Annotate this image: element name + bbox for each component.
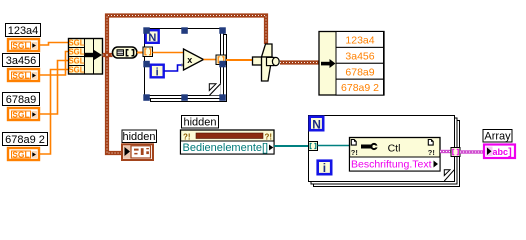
teal wire tunnel to Ctl property node xyxy=(318,145,350,147)
Array label xyxy=(483,130,512,143)
wire multiply to output tunnel xyxy=(204,59,218,61)
wire terminal2 to build array input2 xyxy=(39,52,68,76)
svg-text:hidden: hidden xyxy=(122,131,155,143)
svg-text:SGL: SGL xyxy=(12,41,29,51)
funnel converter node xyxy=(253,44,280,81)
svg-text:678a9 2: 678a9 2 xyxy=(5,134,45,146)
svg-text:Bedienelemente[]: Bedienelemente[] xyxy=(183,142,269,154)
svg-text:i: i xyxy=(323,161,326,175)
array wire funnel to table xyxy=(280,60,322,64)
svg-text:?!: ?! xyxy=(428,148,435,157)
array size capsule node xyxy=(113,47,138,58)
numeric control terminal SGL 4 xyxy=(8,148,39,160)
svg-text:SGL: SGL xyxy=(12,71,29,81)
multiply function xyxy=(184,49,204,70)
svg-text:?!: ?! xyxy=(183,133,191,142)
svg-text:Beschriftung.Text: Beschriftung.Text xyxy=(351,159,432,171)
svg-text:SGL: SGL xyxy=(12,150,29,160)
wire i to multiply (blue) xyxy=(164,65,184,71)
build array node xyxy=(68,39,102,75)
hidden graph terminal node xyxy=(122,144,153,160)
svg-text:123a4: 123a4 xyxy=(8,25,39,37)
label 3a456 xyxy=(3,54,40,68)
numeric control terminal SGL 1 xyxy=(8,39,39,51)
loop 2 N count terminal xyxy=(310,117,324,132)
svg-text:i: i xyxy=(156,67,159,79)
pink string-array wire tunnel to Array indicator xyxy=(460,150,483,153)
wire junction dot xyxy=(104,52,111,59)
Array string-array indicator terminal xyxy=(484,145,515,159)
label 678a9 xyxy=(3,93,40,107)
loop 1 output tunnel xyxy=(216,55,226,65)
svg-text:3a456: 3a456 xyxy=(345,50,374,62)
wire loop output to funnel xyxy=(226,59,254,61)
svg-text:678a9: 678a9 xyxy=(6,94,37,106)
teal reference wire to loop 2 xyxy=(274,145,309,147)
svg-text:Array: Array xyxy=(484,131,511,143)
svg-text:Ctl: Ctl xyxy=(388,142,401,154)
svg-text:3a456: 3a456 xyxy=(6,55,37,67)
loop 1 input tunnel xyxy=(143,47,153,57)
label 123a4 xyxy=(6,24,41,38)
wire capsule to loop tunnel xyxy=(137,52,144,54)
for loop 2 stacked frames xyxy=(309,116,460,187)
svg-text:abc: abc xyxy=(493,147,509,157)
wire terminal1 to build array input1 xyxy=(39,43,68,46)
svg-text:SGL: SGL xyxy=(68,66,84,75)
black arrow into table xyxy=(321,59,336,68)
loop 1 N count terminal xyxy=(146,30,159,44)
svg-text:hidden: hidden xyxy=(183,117,216,129)
svg-text:678a9: 678a9 xyxy=(345,66,374,78)
svg-text:?!: ?! xyxy=(265,133,273,142)
array wire: junction stub build-array to converter xyxy=(103,53,113,57)
svg-text:678a9 2: 678a9 2 xyxy=(341,82,379,94)
pink string-array wire node to tunnel xyxy=(440,150,451,153)
input arrowhead xyxy=(182,63,186,67)
property node Ctl / Beschriftung.Text xyxy=(350,138,441,172)
svg-text:SGL: SGL xyxy=(12,110,29,120)
for loop 1 stacked frames xyxy=(145,29,227,102)
svg-text:SGL: SGL xyxy=(68,39,84,48)
label 678a9 2 xyxy=(3,133,48,147)
wire terminal4 to build array input4 xyxy=(39,70,68,155)
table indicator frame xyxy=(319,32,384,96)
numeric control terminal SGL 3 xyxy=(8,108,39,120)
wire tunnel to multiply xyxy=(153,52,185,54)
property node Bedienelemente[] xyxy=(181,130,275,154)
hidden label above property node xyxy=(182,116,219,129)
loop 2 output tunnel xyxy=(451,148,460,157)
numeric control terminal SGL 2 xyxy=(8,69,39,81)
for loop 1 page curl xyxy=(209,83,221,95)
loop 1 i terminal xyxy=(151,65,164,79)
svg-text:?!: ?! xyxy=(351,148,358,157)
svg-text:123a4: 123a4 xyxy=(345,35,374,47)
loop 2 i terminal xyxy=(318,161,332,175)
array wire: long route top and down to hidden node xyxy=(107,16,266,154)
hidden label bottom-left xyxy=(122,130,157,143)
selection handles of loop 1 xyxy=(143,27,226,101)
svg-text:SGL: SGL xyxy=(68,57,84,66)
wire terminal3 to build array input3 xyxy=(39,61,68,115)
svg-text:SGL: SGL xyxy=(68,48,84,57)
svg-text:]: ] xyxy=(508,146,512,158)
svg-text:N: N xyxy=(312,117,321,131)
loop 2 input tunnel xyxy=(309,142,318,151)
svg-text:x: x xyxy=(187,55,192,65)
for loop 2 page curl xyxy=(444,169,454,181)
